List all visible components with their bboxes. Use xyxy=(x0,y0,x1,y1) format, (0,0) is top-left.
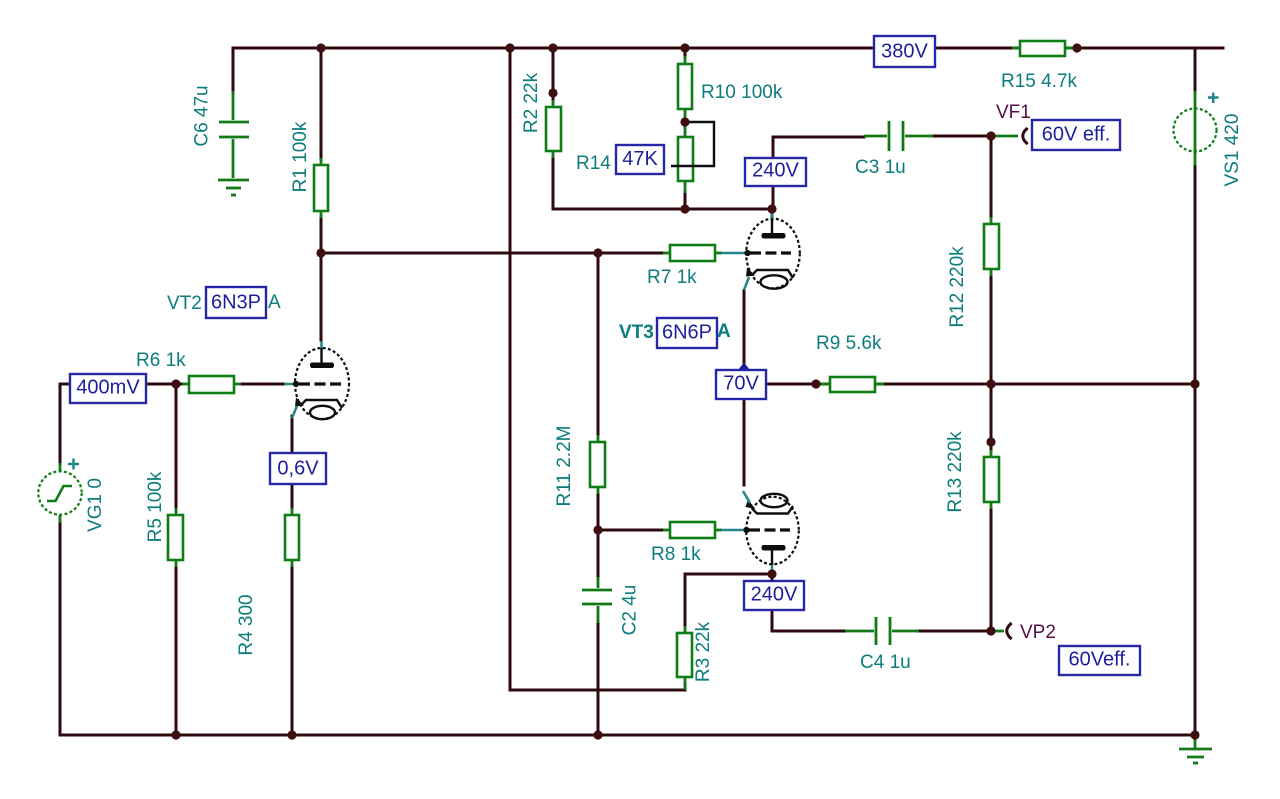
node rail/R15 xyxy=(1072,43,1081,52)
svg-text:R2 22k: R2 22k xyxy=(521,72,542,133)
value box 0,6V xyxy=(270,453,326,484)
node VF1 xyxy=(986,131,995,140)
wire R14 bottom to node xyxy=(684,192,687,209)
resistor R15 4.7k xyxy=(1012,41,1073,56)
svg-text:R11 2.2M: R11 2.2M xyxy=(554,426,575,507)
label R13 220k (rotated) xyxy=(945,431,966,513)
node 70V/R9 xyxy=(811,379,820,388)
wire node down to C2 xyxy=(597,530,600,578)
svg-text:C3 1u: C3 1u xyxy=(855,157,906,178)
label R4 300 (rotated) xyxy=(236,594,257,655)
wire R7 from node xyxy=(598,252,663,255)
node rail/R4 xyxy=(287,730,296,739)
resistor R5 100k xyxy=(168,508,183,567)
ground under C6 xyxy=(218,180,249,195)
node rail/R1 xyxy=(316,43,325,52)
label R10 100k xyxy=(701,82,783,103)
wire VS1 branch from rail xyxy=(1194,48,1197,92)
node rail/C2 xyxy=(593,730,602,739)
node input/R5/R6 xyxy=(171,379,180,388)
svg-text:60Veff.: 60Veff. xyxy=(1069,649,1131,671)
capacitor C2 4u xyxy=(582,577,612,623)
resistor R12 220k xyxy=(984,217,999,276)
node R11/R8/C2 xyxy=(593,525,602,534)
label R5 100k (rotated) xyxy=(145,471,166,542)
svg-text:6N6P: 6N6P xyxy=(662,322,712,344)
label C6 47u (rotated) xyxy=(192,85,213,146)
node VT3a anode xyxy=(767,204,776,213)
svg-text:VT2: VT2 xyxy=(167,293,202,314)
node rail/R10 xyxy=(680,43,689,52)
arrow on 70V box xyxy=(738,363,750,371)
VT3a cathode xyxy=(744,268,793,291)
wire VT2 cathode down through 0,6V box to R4 xyxy=(291,416,294,508)
wire C3 right to VF1 node xyxy=(932,135,991,138)
capacitor C4 1u xyxy=(845,617,919,645)
wire R13 bottom to VP2 node xyxy=(990,509,993,631)
model box 6N6P xyxy=(657,318,717,348)
resistor R6 1k xyxy=(182,376,241,393)
value box 70V xyxy=(716,370,766,399)
source VG1 sine input xyxy=(38,463,81,523)
node R9/R12 column xyxy=(986,379,995,388)
wire C4 right to VP2 node xyxy=(918,630,991,633)
resistor R3 22k xyxy=(677,626,692,690)
VS1 plus mark xyxy=(1208,93,1219,104)
node R7/R11 xyxy=(593,248,602,257)
svg-text:R14: R14 xyxy=(576,153,611,174)
svg-text:R1 100k: R1 100k xyxy=(290,121,311,192)
label R15 4.7k xyxy=(1001,71,1078,92)
wire VT3a cathode down to 70V box xyxy=(743,291,746,368)
svg-text:47K: 47K xyxy=(622,148,658,170)
VG1 plus mark xyxy=(68,459,79,470)
resistor R2 22k xyxy=(546,100,561,158)
wire VF1 probe stub xyxy=(991,135,1018,138)
label R1 100k (rotated) xyxy=(290,121,311,192)
wire R1 branch from rail xyxy=(320,48,323,158)
label C2 4u (rotated) xyxy=(620,585,641,636)
node rail/ground xyxy=(1190,730,1199,739)
wire top 380V rail xyxy=(233,47,1223,50)
value box 400mV xyxy=(70,374,146,403)
label R9 5.6k xyxy=(816,333,882,354)
value box 240V lower xyxy=(744,581,804,610)
wire R10 top stub to rail xyxy=(684,48,687,57)
wire R12 bottom to R13 top xyxy=(990,276,993,450)
label R3 22k (rotated) xyxy=(693,621,714,682)
triode VT3b envelope (inverted) xyxy=(746,497,799,565)
value box 380V xyxy=(874,36,935,67)
wire R5 branch down xyxy=(175,384,178,508)
svg-text:R9 5.6k: R9 5.6k xyxy=(816,333,882,354)
model box 6N3P xyxy=(206,287,266,318)
wire R8 from node xyxy=(598,529,663,532)
svg-text:400mV: 400mV xyxy=(76,377,140,399)
label R7 1k xyxy=(647,267,697,288)
label VS1 420 (rotated) xyxy=(1222,114,1243,187)
label R11 2.2M (rotated) xyxy=(554,426,575,507)
svg-text:R15 4.7k: R15 4.7k xyxy=(1001,71,1078,92)
VT2 cathode xyxy=(292,398,342,420)
svg-text:VS1 420: VS1 420 xyxy=(1222,114,1243,187)
value box 60Veff. xyxy=(1059,646,1140,675)
svg-text:60V eff.: 60V eff. xyxy=(1042,124,1111,146)
node rail/feedback xyxy=(505,43,514,52)
wire C2 bottom to ground rail xyxy=(597,622,600,735)
label VP2 xyxy=(1020,622,1056,643)
label R14 xyxy=(576,153,611,174)
node rail/R2 xyxy=(548,43,557,52)
VT2 anode xyxy=(310,341,334,368)
svg-text:R5 100k: R5 100k xyxy=(145,471,166,542)
wire R2 branch from rail xyxy=(552,48,555,100)
node R2 top xyxy=(548,88,557,97)
node R13 top xyxy=(986,437,995,446)
resistor R11 2.2M xyxy=(590,435,605,494)
wire R4 bottom to ground rail xyxy=(291,567,294,735)
node VT3b anode xyxy=(767,569,776,578)
label R6 1k xyxy=(136,350,186,371)
svg-text:A: A xyxy=(268,292,281,313)
node rail/R5 xyxy=(171,730,180,739)
resistor R8 1k xyxy=(663,522,722,538)
wire VT3a anode to node xyxy=(771,209,774,219)
wire 70V box right to VS1 branch y=384 xyxy=(766,383,1195,386)
label C3 1u xyxy=(855,157,906,178)
wire bottom ground rail xyxy=(60,734,1195,737)
node R10/R14 xyxy=(680,117,689,126)
svg-text:R7 1k: R7 1k xyxy=(647,267,697,288)
svg-text:VP2: VP2 xyxy=(1020,622,1056,643)
resistor R13 220k xyxy=(984,450,999,509)
wire R11 branch down xyxy=(597,253,600,435)
svg-text:C4 1u: C4 1u xyxy=(860,652,911,673)
wire long feedback vertical x=510 xyxy=(510,48,685,690)
svg-text:C6 47u: C6 47u xyxy=(192,85,213,146)
svg-text:0,6V: 0,6V xyxy=(277,458,319,480)
svg-text:240V: 240V xyxy=(751,584,798,606)
wire R1 bottom to node xyxy=(320,218,323,253)
wire VS1 bottom to ground rail xyxy=(1194,167,1197,735)
label R12 220k (rotated) xyxy=(947,246,968,328)
wire VG1 bottom to ground rail xyxy=(59,522,62,735)
svg-text:240V: 240V xyxy=(752,160,799,182)
wire R6 right to VT2 grid xyxy=(241,383,284,386)
wire cathode node to R3 top xyxy=(685,574,772,626)
wire 400mV box right to node xyxy=(146,383,182,386)
wire VT3b anode node down through 240V box to C4 xyxy=(772,574,845,631)
VT3b cathode xyxy=(743,491,793,514)
potentiometer R14 47K xyxy=(678,122,693,193)
triode VT3a envelope xyxy=(746,219,800,289)
value box 240V upper xyxy=(745,158,806,186)
svg-text:R8 1k: R8 1k xyxy=(651,544,701,565)
VT2 grid xyxy=(284,381,344,387)
capacitor C6 47u xyxy=(219,91,249,178)
svg-text:R4 300: R4 300 xyxy=(236,594,257,655)
VT3b anode xyxy=(762,545,786,572)
svg-text:70V: 70V xyxy=(723,373,759,395)
node R1 bottom xyxy=(316,248,325,257)
svg-text:R12 220k: R12 220k xyxy=(947,246,968,328)
VT3a grid xyxy=(721,250,791,256)
wire VP2 probe stub xyxy=(991,630,1004,633)
svg-text:VG1 0: VG1 0 xyxy=(85,478,106,532)
label A after 6N3P xyxy=(268,292,281,313)
resistor R9 5.6k xyxy=(820,377,884,392)
svg-text:A: A xyxy=(717,321,731,342)
value box 47K xyxy=(616,145,664,174)
label VG1 0 (rotated) xyxy=(85,478,106,532)
wire R3 bottom joint xyxy=(684,684,687,690)
wire input from 400mV box left down to VG1 xyxy=(60,384,70,464)
wire VT2 anode from node xyxy=(320,253,323,340)
node R14 bottom xyxy=(680,204,689,213)
wire pot R14 wiper loop xyxy=(671,122,714,166)
label VT3 xyxy=(619,322,654,343)
VT3a anode xyxy=(762,211,786,239)
value box 60V eff. xyxy=(1032,120,1120,150)
resistor R1 100k xyxy=(314,158,328,218)
svg-text:380V: 380V xyxy=(881,41,928,63)
wire horizontal y=209 xyxy=(553,208,772,211)
svg-text:VF1: VF1 xyxy=(996,102,1031,123)
source VS1 420 xyxy=(1174,109,1217,152)
ground bottom right xyxy=(1179,735,1212,763)
node VP2 xyxy=(986,626,995,635)
wire R11 bottom to node xyxy=(597,494,600,530)
wire VF1 node down to R12 xyxy=(990,136,993,217)
triode VT2 envelope xyxy=(295,348,349,419)
wire 70V box bottom to VT3b cathode xyxy=(743,399,746,485)
resistor R10 100k xyxy=(678,56,692,122)
label A after 6N6P xyxy=(717,321,731,342)
svg-text:C2 4u: C2 4u xyxy=(620,585,641,636)
wire through 240V box upper xyxy=(773,137,864,209)
probe tick VP2 xyxy=(1007,624,1011,638)
svg-text:VT3: VT3 xyxy=(619,322,654,343)
svg-text:R6 1k: R6 1k xyxy=(136,350,186,371)
node R9/VS1 xyxy=(1190,379,1199,388)
svg-text:R3 22k: R3 22k xyxy=(693,621,714,682)
svg-text:R13 220k: R13 220k xyxy=(945,431,966,513)
wire mid horizontal y=253 xyxy=(321,252,598,255)
svg-text:R10 100k: R10 100k xyxy=(701,82,783,103)
wire R2 bottom down xyxy=(552,158,555,209)
label VF1 xyxy=(996,102,1031,123)
label C4 1u xyxy=(860,652,911,673)
wire C6 branch from rail xyxy=(232,48,235,92)
svg-text:6N3P: 6N3P xyxy=(211,292,261,314)
resistor R4 300 xyxy=(285,508,299,567)
label VT2 xyxy=(167,293,202,314)
resistor R7 1k xyxy=(663,245,722,261)
wire R5 bottom to ground rail xyxy=(175,567,178,735)
probe tick VF1 xyxy=(1023,129,1027,143)
VT3b grid xyxy=(721,527,790,533)
label R2 22k (rotated) xyxy=(521,72,542,133)
capacitor C3 1u xyxy=(864,121,933,151)
label R8 1k xyxy=(651,544,701,565)
wire VS1 green lead through circle xyxy=(1194,91,1197,168)
